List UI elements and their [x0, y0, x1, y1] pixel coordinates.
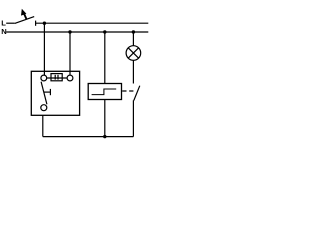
mechanical link dashed — [122, 90, 133, 92]
node D4 on N — [132, 30, 135, 33]
wire control unit output down — [42, 115, 44, 136]
wire lamp to contact — [132, 60, 134, 83]
glow lamp bar 2 — [57, 75, 59, 80]
push button handle shaft — [44, 91, 51, 93]
switch S1 actuation arrow — [21, 9, 26, 16]
wire V4 from N to lamp — [132, 32, 134, 46]
push button handle bar — [49, 89, 51, 95]
terminal circle 3 — [41, 105, 47, 111]
push button blade — [41, 82, 47, 105]
link wire through glow lamp — [47, 77, 67, 79]
wire V1 from L to control unit — [43, 23, 45, 75]
lamp E1 circle — [126, 46, 141, 61]
glow lamp bar 1 — [54, 75, 56, 80]
node D2 on N — [68, 30, 71, 33]
wire N line — [6, 31, 148, 33]
wire L line — [36, 22, 149, 24]
bottom wire — [43, 136, 134, 138]
control unit box — [31, 71, 79, 115]
relay step symbol — [92, 89, 117, 95]
switch S1 stub wire — [6, 22, 15, 24]
relay box U1 — [88, 84, 121, 100]
node D3 on N — [103, 30, 106, 33]
wire V2 from N to control unit — [69, 32, 71, 75]
node D5 on bottom wire — [103, 135, 106, 138]
svg-text:L: L — [1, 18, 6, 27]
wire contact bottom — [132, 100, 134, 136]
terminal circle 2 — [67, 75, 73, 81]
lamp X stroke 1 — [128, 48, 138, 58]
switch S1 blade — [15, 17, 35, 24]
lamp X stroke 2 — [128, 48, 138, 58]
wire relay bottom — [104, 100, 106, 137]
glow lamp box — [51, 74, 62, 81]
terminal circle 1 — [41, 75, 47, 81]
relay contact blade — [134, 86, 140, 101]
wire V3 from N to relay box — [104, 32, 106, 84]
switch S1 contact tick — [35, 21, 37, 26]
svg-text:N: N — [1, 27, 6, 36]
node D1 on L — [43, 22, 46, 25]
